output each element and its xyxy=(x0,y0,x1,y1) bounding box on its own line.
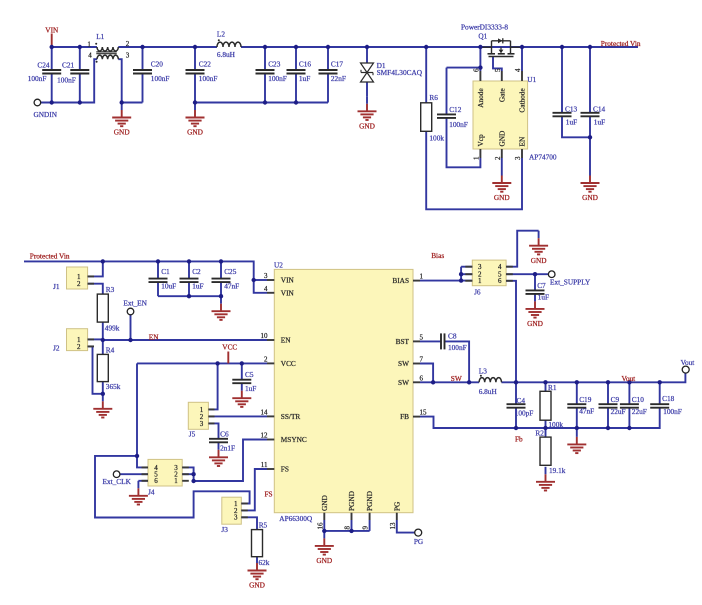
svg-text:GND: GND xyxy=(249,581,265,590)
svg-text:1: 1 xyxy=(87,41,91,49)
svg-text:100nF: 100nF xyxy=(199,74,218,83)
svg-text:365k: 365k xyxy=(106,382,121,391)
svg-text:GND: GND xyxy=(114,128,130,137)
svg-text:J2: J2 xyxy=(53,344,60,353)
svg-text:Protected Vin: Protected Vin xyxy=(30,252,70,261)
svg-text:8: 8 xyxy=(344,526,352,530)
svg-text:FB: FB xyxy=(400,412,409,421)
svg-text:1: 1 xyxy=(472,156,480,160)
svg-text:Vout: Vout xyxy=(681,358,695,367)
svg-text:47nF: 47nF xyxy=(224,281,239,290)
svg-text:3: 3 xyxy=(126,51,130,59)
svg-text:C7: C7 xyxy=(537,281,546,290)
svg-text:2: 2 xyxy=(77,343,81,351)
svg-text:22uF: 22uF xyxy=(632,407,647,416)
svg-text:1uF: 1uF xyxy=(594,118,605,127)
svg-text:PGND: PGND xyxy=(347,491,356,511)
svg-text:1uF: 1uF xyxy=(245,384,256,393)
svg-text:10uF: 10uF xyxy=(161,281,176,290)
svg-text:SW: SW xyxy=(398,359,409,368)
svg-text:J5: J5 xyxy=(189,429,196,438)
svg-text:100nF: 100nF xyxy=(448,343,467,352)
svg-text:Gate: Gate xyxy=(497,88,506,102)
svg-text:2: 2 xyxy=(264,355,268,363)
svg-text:3: 3 xyxy=(514,156,522,160)
svg-text:C5: C5 xyxy=(245,370,254,379)
svg-text:SW: SW xyxy=(398,378,409,387)
svg-text:EN: EN xyxy=(281,336,291,345)
svg-text:6.8uH: 6.8uH xyxy=(217,50,236,59)
svg-text:C1: C1 xyxy=(161,267,170,276)
svg-text:R3: R3 xyxy=(106,285,115,294)
svg-text:6: 6 xyxy=(472,68,480,72)
svg-text:100k: 100k xyxy=(429,134,444,143)
svg-text:100nF: 100nF xyxy=(268,74,287,83)
svg-text:5: 5 xyxy=(420,333,424,341)
svg-text:VIN: VIN xyxy=(45,26,59,35)
svg-text:Ext_EN: Ext_EN xyxy=(123,299,147,308)
svg-text:3: 3 xyxy=(200,420,204,428)
svg-text:L3: L3 xyxy=(479,366,487,375)
svg-text:J1: J1 xyxy=(53,282,60,291)
svg-text:Ext_CLK: Ext_CLK xyxy=(103,477,132,486)
svg-text:GNDIN: GNDIN xyxy=(34,110,58,119)
svg-text:GND: GND xyxy=(187,128,203,137)
svg-text:100nF: 100nF xyxy=(449,120,468,129)
svg-text:C25: C25 xyxy=(224,267,237,276)
svg-text:6: 6 xyxy=(498,277,502,285)
svg-text:SW: SW xyxy=(451,374,462,383)
svg-text:J3: J3 xyxy=(221,525,228,534)
svg-text:14: 14 xyxy=(261,408,269,416)
svg-text:GND: GND xyxy=(497,131,506,147)
svg-text:100nF: 100nF xyxy=(28,74,47,83)
svg-text:GND: GND xyxy=(494,193,510,202)
svg-text:22uF: 22uF xyxy=(611,407,626,416)
svg-text:Cathode: Cathode xyxy=(518,88,527,112)
svg-text:VCC: VCC xyxy=(281,359,296,368)
svg-text:J4: J4 xyxy=(148,487,155,496)
svg-text:J6: J6 xyxy=(474,287,481,296)
svg-text:Vcp: Vcp xyxy=(476,134,485,147)
svg-text:5: 5 xyxy=(494,68,502,72)
svg-text:R6: R6 xyxy=(429,93,438,102)
svg-text:PowerDI3333-8: PowerDI3333-8 xyxy=(461,22,508,31)
svg-text:Anode: Anode xyxy=(476,88,485,107)
svg-text:1uF: 1uF xyxy=(538,293,549,302)
svg-text:VIN: VIN xyxy=(281,288,295,297)
svg-text:1: 1 xyxy=(174,477,178,485)
svg-text:EN: EN xyxy=(518,136,527,146)
svg-text:Bias: Bias xyxy=(431,251,444,260)
svg-text:C2: C2 xyxy=(192,267,201,276)
svg-text:3: 3 xyxy=(264,272,268,280)
svg-text:C20: C20 xyxy=(151,60,164,69)
svg-text:15: 15 xyxy=(420,409,428,417)
svg-text:R1: R1 xyxy=(548,383,557,392)
svg-text:16: 16 xyxy=(316,522,324,530)
svg-text:R4: R4 xyxy=(106,346,115,355)
svg-text:U1: U1 xyxy=(527,75,536,84)
svg-text:13: 13 xyxy=(389,522,397,530)
svg-text:47nF: 47nF xyxy=(579,407,594,416)
svg-text:C8: C8 xyxy=(448,332,457,341)
svg-text:PG: PG xyxy=(414,537,424,546)
svg-text:R2: R2 xyxy=(535,428,544,437)
svg-text:L1: L1 xyxy=(96,32,104,41)
svg-text:1uF: 1uF xyxy=(192,281,203,290)
svg-text:10: 10 xyxy=(261,332,269,340)
svg-text:C6: C6 xyxy=(220,430,229,439)
svg-text:22nF: 22nF xyxy=(331,74,346,83)
svg-text:C23: C23 xyxy=(268,60,281,69)
svg-text:BST: BST xyxy=(396,337,410,346)
svg-text:2: 2 xyxy=(77,280,81,288)
svg-text:1: 1 xyxy=(478,277,482,285)
svg-text:C4: C4 xyxy=(517,396,526,405)
svg-text:C17: C17 xyxy=(331,60,344,69)
svg-text:AP66300Q: AP66300Q xyxy=(279,514,313,523)
svg-text:U2: U2 xyxy=(274,261,283,270)
svg-text:PG: PG xyxy=(392,501,401,511)
svg-text:SMF4L30CAQ: SMF4L30CAQ xyxy=(377,68,423,77)
svg-text:Fb: Fb xyxy=(515,435,523,444)
svg-text:C18: C18 xyxy=(662,394,675,403)
svg-text:C14: C14 xyxy=(593,105,606,114)
svg-text:19.1k: 19.1k xyxy=(549,466,566,475)
svg-text:1uF: 1uF xyxy=(299,74,310,83)
svg-text:3: 3 xyxy=(234,514,238,522)
svg-text:2: 2 xyxy=(494,156,502,160)
svg-text:AP74700: AP74700 xyxy=(529,153,557,162)
svg-text:7: 7 xyxy=(420,356,424,364)
svg-text:Ext_SUPPLY: Ext_SUPPLY xyxy=(550,277,591,286)
svg-text:C16: C16 xyxy=(299,60,312,69)
svg-text:MSYNC: MSYNC xyxy=(281,435,307,444)
svg-text:2n1F: 2n1F xyxy=(220,443,235,452)
svg-text:C24: C24 xyxy=(37,60,50,69)
svg-text:100pF: 100pF xyxy=(515,409,534,418)
svg-text:100nF: 100nF xyxy=(151,74,170,83)
svg-text:C21: C21 xyxy=(62,60,75,69)
svg-text:6: 6 xyxy=(154,477,158,485)
svg-text:PGND: PGND xyxy=(365,491,374,511)
svg-text:SS/TR: SS/TR xyxy=(281,412,301,421)
svg-text:6.8uH: 6.8uH xyxy=(479,387,498,396)
svg-text:C10: C10 xyxy=(632,395,645,404)
svg-text:6: 6 xyxy=(420,374,424,382)
svg-text:C9: C9 xyxy=(611,395,620,404)
svg-text:GND: GND xyxy=(531,256,547,265)
svg-text:100k: 100k xyxy=(548,420,563,429)
svg-text:Q1: Q1 xyxy=(478,32,487,41)
svg-text:100nF: 100nF xyxy=(57,76,76,85)
svg-text:R5: R5 xyxy=(259,521,268,530)
svg-text:GND: GND xyxy=(582,193,598,202)
svg-text:100nF: 100nF xyxy=(663,407,682,416)
svg-text:499k: 499k xyxy=(105,324,120,333)
svg-text:4: 4 xyxy=(88,51,92,59)
svg-text:GND: GND xyxy=(527,319,543,328)
svg-text:L2: L2 xyxy=(217,29,225,38)
svg-text:FS: FS xyxy=(265,490,273,499)
svg-text:VCC: VCC xyxy=(222,342,237,351)
svg-text:GND: GND xyxy=(359,122,375,131)
svg-text:C12: C12 xyxy=(449,105,462,114)
svg-text:11: 11 xyxy=(261,461,268,469)
svg-text:VIN: VIN xyxy=(281,276,295,285)
svg-text:FS: FS xyxy=(281,465,289,474)
svg-text:EN: EN xyxy=(149,333,159,342)
svg-text:C13: C13 xyxy=(565,105,578,114)
svg-text:2: 2 xyxy=(126,40,130,48)
svg-text:9: 9 xyxy=(362,526,370,530)
svg-text:62k: 62k xyxy=(259,558,270,567)
svg-text:1uF: 1uF xyxy=(566,118,577,127)
svg-text:GND: GND xyxy=(316,556,332,565)
svg-text:C19: C19 xyxy=(579,395,592,404)
svg-text:C22: C22 xyxy=(199,60,212,69)
svg-text:BIAS: BIAS xyxy=(392,276,409,285)
svg-text:4: 4 xyxy=(264,285,268,293)
svg-text:1: 1 xyxy=(420,273,424,281)
svg-text:GND: GND xyxy=(320,495,329,511)
svg-text:Protected Vin: Protected Vin xyxy=(601,39,641,48)
svg-text:12: 12 xyxy=(261,432,269,440)
svg-text:Vout: Vout xyxy=(622,374,636,383)
svg-text:4: 4 xyxy=(514,68,522,72)
